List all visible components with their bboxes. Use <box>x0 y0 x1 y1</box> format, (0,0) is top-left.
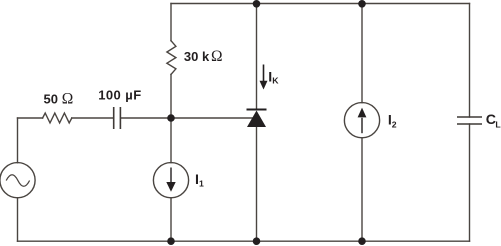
svg-text:Ω: Ω <box>62 91 74 108</box>
svg-text:50: 50 <box>44 92 58 107</box>
svg-text:Ω: Ω <box>211 48 223 65</box>
svg-text:K: K <box>272 75 279 85</box>
svg-text:2: 2 <box>392 120 397 130</box>
svg-text:30 k: 30 k <box>184 49 210 64</box>
svg-text:100 µF: 100 µF <box>98 88 141 103</box>
svg-text:L: L <box>495 120 501 130</box>
svg-text:1: 1 <box>199 178 204 188</box>
